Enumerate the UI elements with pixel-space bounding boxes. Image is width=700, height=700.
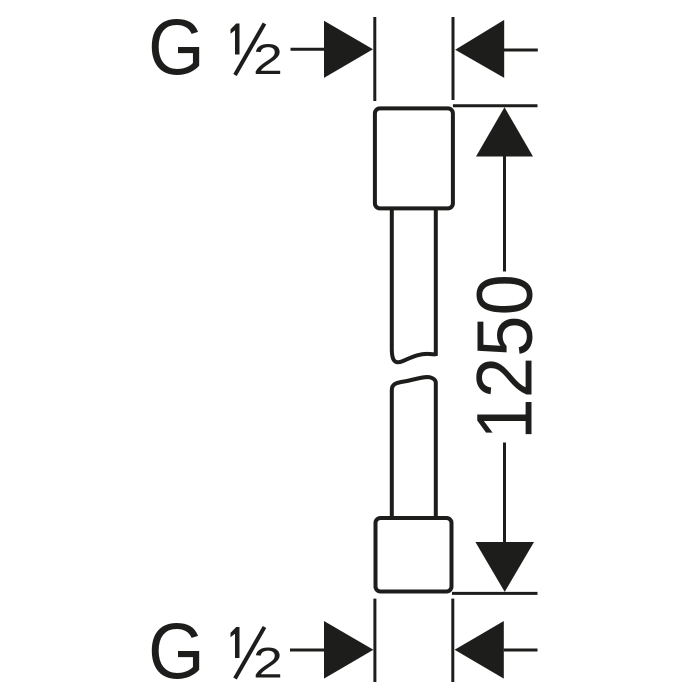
arrow top-left (points right) bbox=[324, 21, 373, 78]
leader line top-right bbox=[504, 49, 538, 52]
extension line top-left bbox=[373, 17, 376, 101]
dimension arrow down bbox=[475, 542, 534, 592]
dimension arrow up bbox=[476, 107, 533, 156]
fraction numerator 1 (bottom) bbox=[231, 627, 240, 658]
leader line bottom-right bbox=[504, 649, 538, 652]
extension line bottom-right bbox=[451, 599, 454, 682]
arrow bottom-right (points left) bbox=[455, 621, 504, 679]
hose tube lower segment with break wave bbox=[392, 377, 436, 518]
extension line top-right bbox=[452, 17, 455, 100]
leader line bottom-left bbox=[290, 649, 326, 652]
hose tube upper segment with break wave bbox=[392, 208, 436, 362]
svg-text:G: G bbox=[148, 608, 204, 695]
svg-text:2: 2 bbox=[253, 36, 283, 84]
fraction slash (top) bbox=[235, 24, 265, 76]
leader line top-left bbox=[291, 48, 327, 51]
fraction slash (bottom) bbox=[235, 627, 265, 679]
svg-text:G: G bbox=[148, 4, 204, 91]
dimension line upper segment bbox=[503, 120, 506, 272]
hose fitting bottom (rounded rect) bbox=[376, 518, 452, 592]
hose fitting top (rounded rect) bbox=[375, 108, 453, 208]
gauge line top (1250 dimension) bbox=[453, 104, 538, 107]
svg-text:2: 2 bbox=[253, 640, 283, 688]
arrow top-right (points left) bbox=[455, 20, 504, 78]
gauge line bottom (1250 dimension) bbox=[452, 592, 538, 595]
fraction numerator 1 (top) bbox=[231, 24, 240, 55]
arrow bottom-left (points right) bbox=[324, 621, 373, 679]
extension line bottom-left bbox=[373, 599, 376, 682]
dimension line lower segment bbox=[503, 443, 506, 586]
svg-text:1250: 1250 bbox=[462, 274, 549, 440]
